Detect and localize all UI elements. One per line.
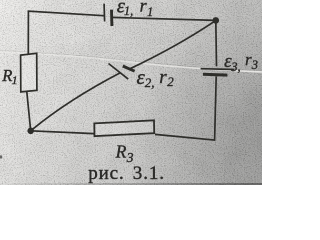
- svg-text:R: R: [115, 142, 127, 162]
- svg-text:3: 3: [251, 58, 258, 72]
- svg-text:2: 2: [167, 74, 174, 89]
- svg-text:рис. 3.1.: рис. 3.1.: [88, 163, 165, 184]
- svg-text:3,: 3,: [230, 60, 240, 74]
- svg-text:r: r: [159, 67, 167, 88]
- svg-text:1,: 1,: [124, 4, 133, 18]
- svg-text:2,: 2,: [145, 75, 155, 90]
- svg-text:1: 1: [12, 73, 18, 87]
- svg-text:1: 1: [147, 5, 153, 19]
